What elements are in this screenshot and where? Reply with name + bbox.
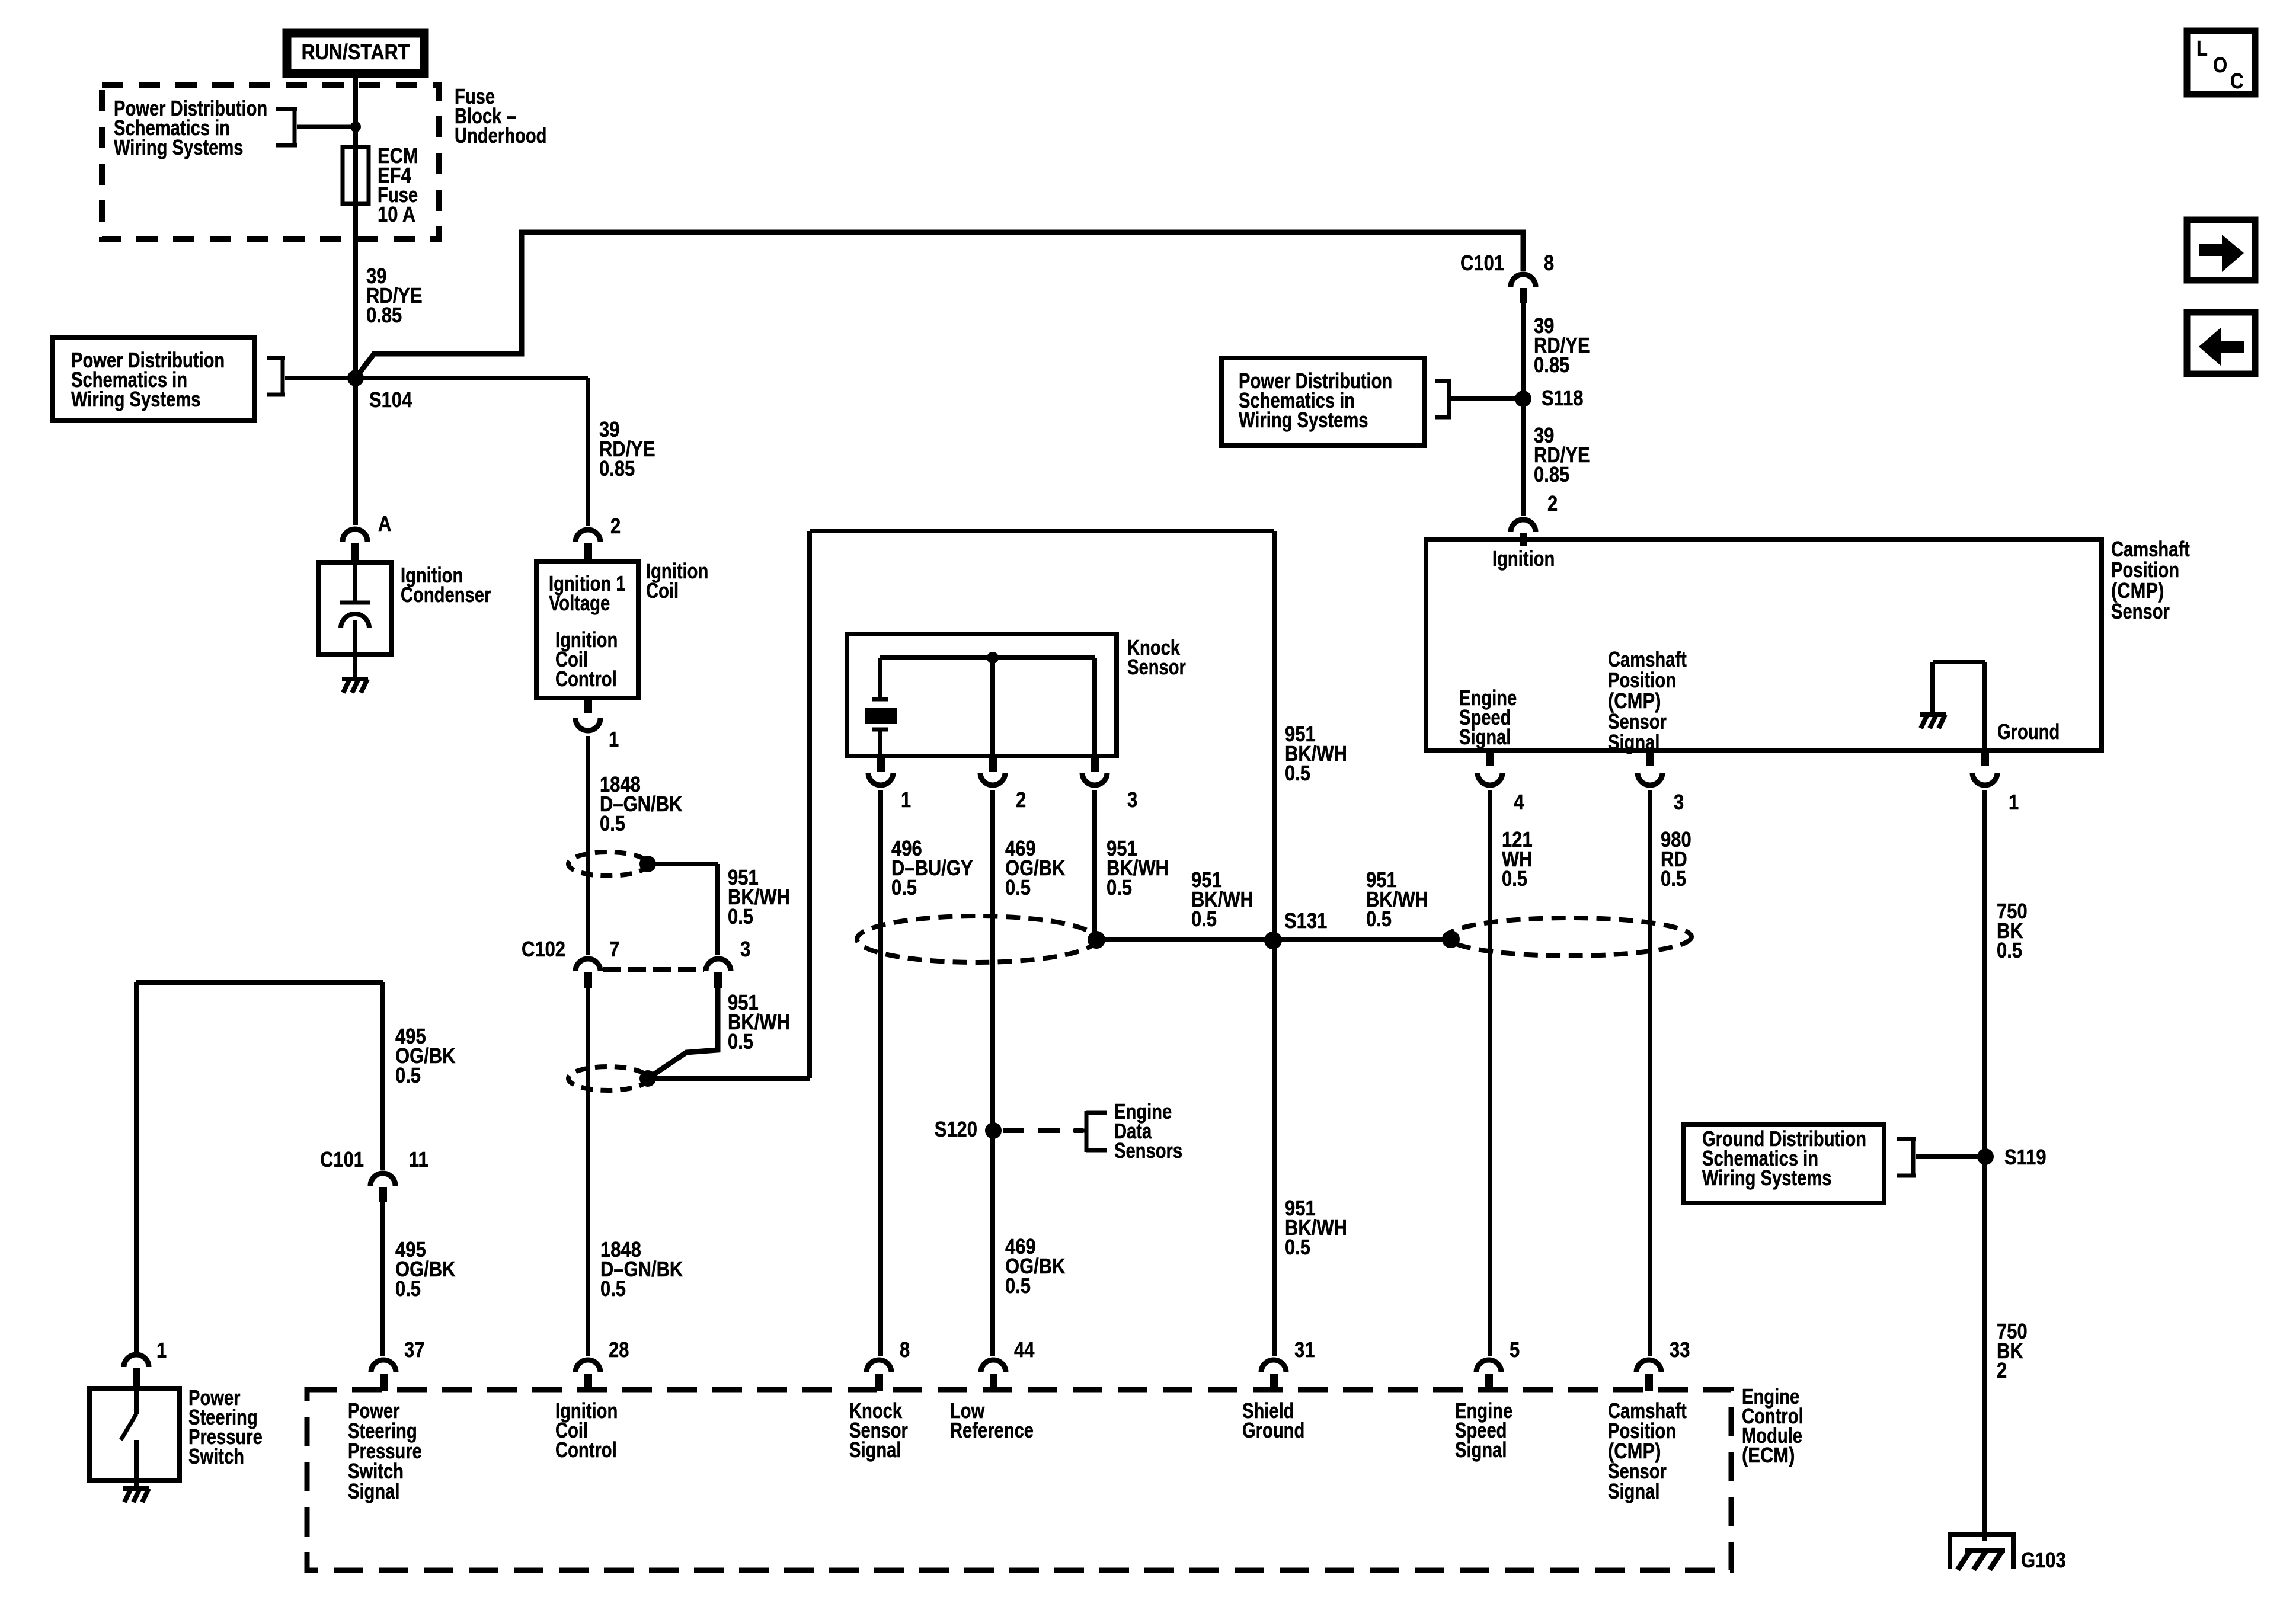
svg-text:2: 2 (1547, 491, 1558, 516)
svg-text:Control: Control (555, 1438, 617, 1462)
svg-text:2: 2 (1016, 788, 1026, 812)
wire knock pin2 to ECM pin 44 (990, 790, 995, 1356)
splice S120 (985, 1122, 1002, 1139)
svg-text:0.5: 0.5 (728, 1029, 753, 1054)
shield wire to S131 riser (648, 1076, 810, 1081)
icon arrow-left box (2187, 312, 2255, 374)
svg-text:Condenser: Condenser (401, 582, 491, 607)
svg-text:0.5: 0.5 (1502, 866, 1527, 891)
svg-text:0.5: 0.5 (1366, 907, 1392, 931)
connector ECM pin 44 (981, 1360, 1006, 1372)
svg-text:1: 1 (2009, 790, 2019, 814)
connector pin 1 (power steering switch) (124, 1355, 149, 1367)
fuse block dashed box (Fuse Block - Underhood) (102, 85, 439, 239)
wire C102-7 to ECM pin 28 (586, 988, 590, 1356)
icon LOC box (2187, 31, 2255, 94)
connector knock pin 1 (877, 756, 885, 772)
svg-text:RUN/START: RUN/START (302, 40, 410, 64)
svg-text:0.85: 0.85 (1534, 462, 1569, 486)
wire knock pin3 to shield bus (1092, 790, 1097, 940)
bracket to S104 (267, 356, 285, 360)
svg-text:33: 33 (1670, 1337, 1690, 1362)
svg-text:0.85: 0.85 (1534, 353, 1569, 377)
wire knock pin1 to ECM pin 8 (878, 790, 883, 1356)
svg-text:C101: C101 (1460, 251, 1504, 275)
dashed stub to Engine Data Sensors (1003, 1128, 1083, 1133)
svg-text:L: L (2196, 36, 2208, 60)
svg-text:Coil: Coil (646, 578, 679, 603)
knock sensor box (847, 634, 1117, 756)
svg-text:0.85: 0.85 (599, 456, 635, 481)
svg-text:0.5: 0.5 (1191, 907, 1217, 931)
reference box: Ground Distribution Schematics in Wiring Systems (1683, 1125, 1884, 1203)
connector C101 pin 11 (370, 1173, 395, 1186)
svg-text:0.5: 0.5 (600, 1276, 626, 1301)
shield junction dot (knock) (1088, 931, 1105, 949)
svg-text:28: 28 (609, 1337, 629, 1362)
shield junction dot (upper) (639, 856, 656, 872)
shield ellipse (knock harness) (857, 916, 1096, 962)
svg-text:C: C (2230, 69, 2243, 93)
svg-text:Ignition: Ignition (1492, 546, 1555, 571)
wire power steering switch to C101-11 (136, 980, 383, 985)
connector knock pin 2 (989, 756, 997, 772)
shield junction dot (CMP) (1442, 930, 1460, 948)
svg-text:Wiring Systems: Wiring Systems (1239, 408, 1368, 432)
svg-text:Underhood: Underhood (455, 123, 547, 148)
svg-text:Sensor: Sensor (1127, 655, 1186, 679)
svg-text:1: 1 (609, 727, 619, 751)
connector CMP pin 2 (1511, 520, 1536, 532)
svg-text:Voltage: Voltage (549, 591, 610, 615)
fuse ECM EF4 10A (343, 147, 369, 204)
svg-text:C101: C101 (320, 1147, 364, 1172)
svg-text:Wiring Systems: Wiring Systems (1702, 1166, 1832, 1190)
svg-text:Control: Control (555, 667, 617, 691)
svg-text:Signal: Signal (348, 1479, 400, 1503)
svg-text:S119: S119 (2004, 1145, 2046, 1169)
connector knock pin 3 (1091, 756, 1099, 772)
engine control module dashed box (307, 1390, 1731, 1570)
shield drain wire to C102-3 (648, 862, 718, 866)
bracket Engine Data Sensors (1073, 1129, 1086, 1133)
ignition coil box (536, 562, 638, 698)
knock sensor internal bus (880, 655, 1095, 660)
svg-text:1: 1 (901, 788, 911, 812)
ground G103 (1948, 1532, 2016, 1537)
node (junction) in fuse block (350, 121, 361, 132)
ground (condenser) (342, 677, 368, 681)
svg-text:Signal: Signal (849, 1438, 901, 1462)
connector ECM pin 31 (1261, 1360, 1286, 1372)
splice S118 (1515, 391, 1531, 407)
svg-text:2: 2 (1997, 1358, 2007, 1382)
svg-text:0.5: 0.5 (891, 875, 917, 900)
connector ECM pin 5 (1476, 1360, 1501, 1372)
svg-text:0.5: 0.5 (1107, 875, 1132, 900)
svg-text:44: 44 (1014, 1337, 1034, 1362)
svg-text:3: 3 (1127, 788, 1137, 812)
svg-text:S104: S104 (369, 388, 412, 412)
ground (power steering switch) (123, 1486, 149, 1491)
wire coil pin1 down (586, 736, 590, 955)
svg-text:0.5: 0.5 (1285, 761, 1310, 785)
wire S104 to ignition coil pin 2 (356, 376, 588, 380)
reference box: Power Distribution Schematics in Wiring Systems (S118) (1221, 358, 1424, 446)
shield bus wire (1096, 939, 1451, 940)
svg-text:8: 8 (900, 1337, 910, 1362)
svg-text:Reference: Reference (950, 1418, 1034, 1442)
splice S119 (1977, 1148, 1994, 1165)
icon arrow-right box (2187, 220, 2255, 280)
capacitor inside condenser (353, 562, 357, 601)
svg-text:S131: S131 (1284, 908, 1327, 933)
svg-text:Ground: Ground (1242, 1418, 1304, 1442)
svg-text:A: A (378, 511, 391, 536)
splice S131 (1264, 932, 1282, 949)
connector ECM pin 37 (371, 1360, 396, 1372)
connector C102 pin 3 (706, 959, 731, 971)
svg-text:1: 1 (156, 1338, 167, 1362)
svg-text:37: 37 (404, 1337, 424, 1362)
shield ellipse (CMP harness) (1447, 918, 1691, 956)
svg-text:S120: S120 (935, 1117, 977, 1141)
bracket to node in fuse block (276, 107, 297, 111)
ignition condenser box (318, 562, 392, 655)
svg-text:Signal: Signal (1459, 725, 1511, 749)
reference box: Power Distribution Schematics in Wiring Systems (S104) (53, 338, 255, 421)
shield junction dot (lower) (639, 1070, 656, 1087)
svg-text:Signal: Signal (1608, 1479, 1660, 1503)
wire CMP pin1 to G103 (1982, 790, 1987, 1541)
svg-text:0.5: 0.5 (600, 811, 625, 836)
svg-text:Wiring Systems: Wiring Systems (71, 387, 201, 411)
ground (CMP internal) (1920, 712, 1946, 717)
shield ellipse at coil (lower) (568, 1067, 648, 1090)
wire CMP pin3 to ECM pin 33 (1648, 790, 1652, 1356)
connector C101 pin 8 (1511, 274, 1536, 287)
svg-text:4: 4 (1514, 790, 1524, 814)
wire S104 up-right to C101-8 (356, 232, 1523, 378)
svg-text:3: 3 (1674, 790, 1684, 814)
svg-text:31: 31 (1294, 1337, 1315, 1362)
shield ellipse at coil (upper) (568, 852, 648, 876)
wire C102-3 shield drain to lower ellipse (648, 988, 718, 1078)
power feed RUN/START box (287, 33, 424, 73)
svg-text:Wiring Systems: Wiring Systems (114, 135, 244, 159)
svg-text:Signal: Signal (1455, 1438, 1507, 1462)
connector CMP pin 4 (1486, 751, 1494, 766)
svg-text:G103: G103 (2021, 1548, 2066, 1572)
internal ground wire (CMP) (1933, 660, 1985, 664)
svg-text:Sensor: Sensor (2111, 599, 2170, 623)
svg-text:0.5: 0.5 (1005, 875, 1031, 900)
svg-text:C102: C102 (522, 937, 565, 961)
svg-text:5: 5 (1510, 1337, 1520, 1362)
connector CMP pin 1 (1981, 751, 1989, 766)
camshaft position (CMP) sensor box (1426, 540, 2102, 751)
connector CMP pin 3 (1646, 751, 1654, 766)
svg-text:0.85: 0.85 (366, 303, 402, 327)
svg-text:0.5: 0.5 (395, 1276, 421, 1301)
svg-text:11: 11 (409, 1147, 428, 1172)
splice S104 (347, 370, 364, 386)
svg-text:Sensors: Sensors (1114, 1138, 1182, 1163)
svg-text:10 A: 10 A (378, 202, 415, 226)
connector pin A (ignition condenser) (343, 529, 367, 542)
svg-text:7: 7 (609, 937, 619, 961)
svg-text:Switch: Switch (188, 1444, 244, 1468)
svg-text:0.5: 0.5 (395, 1063, 421, 1087)
knock sensor internal node (987, 652, 999, 664)
connector pin 1 (ignition coil) (584, 699, 592, 713)
connector ECM pin 8 (866, 1360, 891, 1372)
svg-text:0.5: 0.5 (1997, 938, 2022, 962)
svg-text:3: 3 (740, 937, 750, 961)
svg-text:0.5: 0.5 (1005, 1273, 1031, 1298)
connector ECM pin 28 (575, 1360, 600, 1372)
svg-text:0.5: 0.5 (1285, 1235, 1310, 1259)
svg-text:2: 2 (610, 514, 621, 538)
svg-text:0.5: 0.5 (1661, 866, 1686, 891)
wire C101-8 to CMP pin 2 (1521, 303, 1526, 516)
connector ECM pin 33 (1636, 1360, 1661, 1372)
power steering pressure switch box (89, 1388, 180, 1480)
connector C102 pin 7 (575, 959, 600, 971)
wire C101-11 to ECM pin 37 (380, 1202, 385, 1356)
wire condenser to ground (353, 655, 357, 679)
svg-text:0.5: 0.5 (728, 904, 753, 929)
piezo element (knock sensor) (878, 658, 882, 699)
switch contact (power steering) (134, 1388, 139, 1414)
connector pin 2 (ignition coil) (575, 530, 600, 542)
bracket to S119 (1897, 1137, 1916, 1141)
svg-text:8: 8 (1544, 251, 1554, 275)
wire CMP pin4 to ECM pin 5 (1488, 790, 1492, 1356)
bracket to S118 (1435, 379, 1451, 383)
svg-text:(ECM): (ECM) (1742, 1443, 1795, 1467)
svg-text:S118: S118 (1542, 386, 1584, 410)
connector C102 dashed link (603, 967, 704, 972)
svg-text:O: O (2213, 53, 2227, 77)
svg-text:Ground: Ground (1997, 719, 2060, 744)
svg-text:Signal: Signal (1608, 730, 1660, 754)
wire RUN/START to S104 vertical (353, 78, 358, 525)
